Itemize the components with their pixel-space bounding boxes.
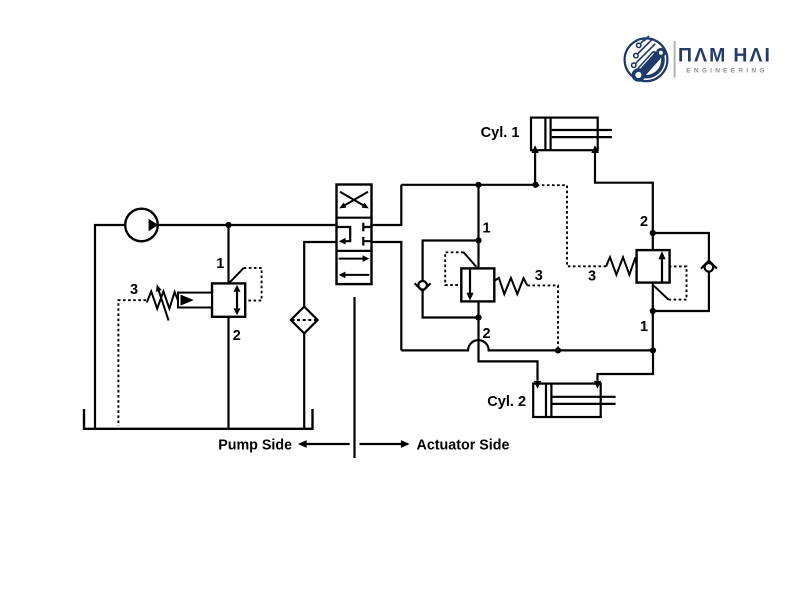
relief adjustment arrow	[159, 291, 169, 321]
logo icon	[625, 36, 668, 82]
Cyl2 piston	[546, 384, 551, 417]
node cyl1 left	[532, 182, 538, 188]
wire pump discharge to valve P	[94, 224, 337, 226]
CB2 internal arrow	[661, 258, 663, 282]
CB1 spring	[494, 278, 527, 294]
Cyl1 piston	[545, 118, 550, 151]
node bypass2 top	[650, 230, 656, 236]
svg-text:ENGINEERING: ENGINEERING	[686, 68, 767, 75]
wire Cyl1 right port over to valve2 branch	[595, 153, 653, 250]
wire valve2 lower branch	[652, 283, 654, 351]
valve2 bypass wires	[653, 233, 709, 311]
relief spring	[147, 291, 178, 308]
CB1 pilot dashed loop	[445, 252, 463, 285]
DCV bottom box parallel arrows	[339, 258, 365, 260]
wire bus right down to Cyl2 right port	[598, 350, 654, 380]
svg-text:Cyl. 2: Cyl. 2	[487, 394, 526, 410]
wire Cyl1 left port	[534, 153, 536, 185]
valve1 bypass wires	[423, 241, 479, 318]
node bus right	[650, 347, 656, 353]
CB2 pilot dashed loop	[669, 266, 687, 299]
relief valve internal double arrow	[236, 289, 238, 310]
CB2 spring dashed to top bus	[536, 185, 606, 266]
wire DCV B-port down	[372, 242, 402, 350]
cylinder Cyl1 body	[531, 118, 598, 151]
wire valve1 lower branch to Cyl2	[479, 301, 538, 380]
svg-text:3: 3	[535, 268, 543, 284]
wire DCV A-port up to top bus	[372, 185, 402, 225]
svg-text:ΠΛM HΛI: ΠΛM HΛI	[678, 44, 772, 66]
svg-text:2: 2	[233, 328, 241, 344]
logo crescent lower right	[644, 52, 665, 79]
CB1 pilot diagonal	[464, 252, 477, 267]
Cyl2 rod	[552, 397, 615, 404]
check valve CV2	[705, 263, 714, 272]
actuator side arrow	[360, 443, 402, 445]
svg-text:Actuator Side: Actuator Side	[417, 437, 510, 453]
cylinder Cyl2 body	[533, 384, 601, 417]
wire relief branch upper	[227, 225, 229, 283]
svg-text:Pump Side: Pump Side	[218, 437, 292, 453]
wire tank-port to filter	[304, 242, 336, 307]
Cyl1 rod	[552, 130, 612, 137]
node bypass1 top	[475, 237, 481, 243]
svg-text:3: 3	[130, 282, 138, 298]
wire valve1 upper branch	[477, 185, 479, 269]
pump P1	[125, 209, 158, 242]
tank	[84, 409, 313, 429]
relief drain dashed to tank	[118, 300, 146, 426]
node spring1 bus	[555, 347, 561, 353]
solenoid box of relief valve	[178, 293, 212, 308]
svg-text:1: 1	[482, 220, 490, 236]
pump side arrow	[306, 443, 350, 445]
relief pilot diagonal	[230, 268, 244, 283]
relief pilot dashed loop	[244, 268, 262, 301]
CB1 spring dashed to bus	[527, 285, 558, 350]
junction pump/relief node	[225, 222, 231, 228]
wire bottom bus with hop	[401, 340, 653, 350]
node valve1 top	[475, 182, 481, 188]
DCV middle box blocked ports	[363, 223, 371, 246]
check valve CV1	[418, 281, 427, 290]
directional valve DCV1 body	[337, 185, 372, 285]
logo rod eye top right	[656, 48, 666, 58]
svg-text:2: 2	[482, 326, 490, 342]
node bypass1 bottom	[475, 314, 481, 320]
wire relief branch lower to tank	[227, 317, 229, 429]
solenoid triangle	[181, 295, 194, 306]
filter F1	[291, 307, 318, 334]
logo circuit traces	[635, 36, 655, 64]
wire pump suction vertical	[94, 224, 96, 429]
node bypass2 bottom	[650, 308, 656, 314]
Cyl2 port arrowheads	[534, 381, 541, 389]
logo base eye bottom left	[632, 68, 646, 82]
svg-text:1: 1	[640, 319, 648, 335]
CB1 internal arrow	[469, 269, 471, 294]
relief valve RV1 body	[212, 283, 245, 316]
divider line pump/actuator	[353, 297, 355, 458]
svg-text:3: 3	[588, 269, 596, 285]
CB2 pilot diagonal	[654, 286, 669, 300]
DCV middle box P-T path	[337, 227, 351, 241]
svg-text:2: 2	[640, 214, 648, 230]
logo cylinder body	[636, 50, 662, 77]
svg-text:Cyl. 1: Cyl. 1	[481, 125, 520, 141]
wire filter to tank	[303, 333, 305, 429]
wire top bus	[401, 184, 535, 186]
DCV top box crossed arrows	[340, 192, 368, 206]
logo divider bar	[674, 41, 676, 78]
counterbalance valve CB2 body	[637, 250, 670, 283]
svg-text:1: 1	[216, 256, 224, 272]
counterbalance valve CB1 body	[461, 268, 494, 301]
CB2 spring	[606, 257, 637, 275]
